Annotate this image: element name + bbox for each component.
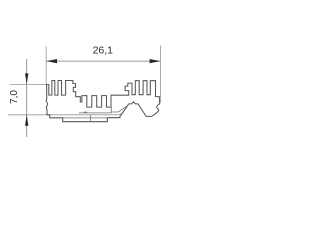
arrow right of 26,1: [150, 59, 161, 63]
extension line left (26,1 dim): [45, 47, 47, 85]
cavity floor line: [79, 107, 111, 113]
arrow left of 26,1: [46, 59, 57, 63]
extension line top (7,0 dim): [10, 83, 47, 85]
foot divider vertical: [90, 115, 92, 122]
foot mid horizontal line: [63, 117, 107, 119]
heatsink profile outer outline: [46, 81, 159, 122]
extension line right (26,1 dim): [159, 46, 161, 104]
arrow up (7,0 bottom): [25, 115, 28, 126]
dimension line 26,1: [46, 60, 160, 62]
svg-text:26,1: 26,1: [93, 44, 114, 56]
dimension line 7,0 (vertical): [26, 59, 28, 137]
arrow down (7,0 top): [25, 73, 28, 84]
inner trapezoid step: [111, 106, 126, 112]
small bump on cavity floor: [84, 112, 88, 113]
inner ledge line right: [119, 113, 123, 115]
svg-text:7,0: 7,0: [9, 90, 20, 104]
extension line bottom (7,0 dim): [8, 114, 119, 116]
